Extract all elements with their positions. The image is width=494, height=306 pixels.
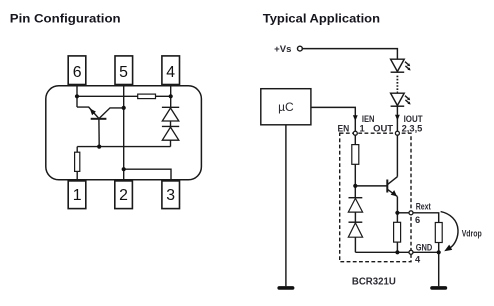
svg-text:Typical Application: Typical Application: [263, 12, 380, 26]
svg-text:3: 3: [166, 187, 175, 204]
svg-text:Pin Configuration: Pin Configuration: [10, 12, 121, 26]
svg-text:2,3,5: 2,3,5: [402, 123, 423, 133]
svg-text:2: 2: [119, 187, 128, 204]
svg-text:Vdrop: Vdrop: [462, 228, 482, 238]
svg-text:1: 1: [360, 123, 365, 133]
svg-text:OUT: OUT: [373, 123, 393, 133]
svg-text:GND: GND: [416, 243, 433, 253]
svg-text:6: 6: [415, 215, 420, 225]
svg-text:BCR321U: BCR321U: [352, 277, 396, 288]
svg-text:IOUT: IOUT: [404, 114, 423, 124]
svg-text:4: 4: [415, 255, 421, 265]
svg-text:IEN: IEN: [362, 114, 375, 124]
svg-text:6: 6: [73, 64, 82, 81]
svg-text:5: 5: [119, 64, 128, 81]
svg-text:Rext: Rext: [416, 202, 431, 212]
svg-text:EN: EN: [338, 123, 350, 133]
svg-text:4: 4: [166, 64, 175, 81]
svg-text:µC: µC: [278, 100, 294, 114]
svg-text:1: 1: [73, 187, 82, 204]
svg-text:+Vs: +Vs: [274, 44, 291, 54]
